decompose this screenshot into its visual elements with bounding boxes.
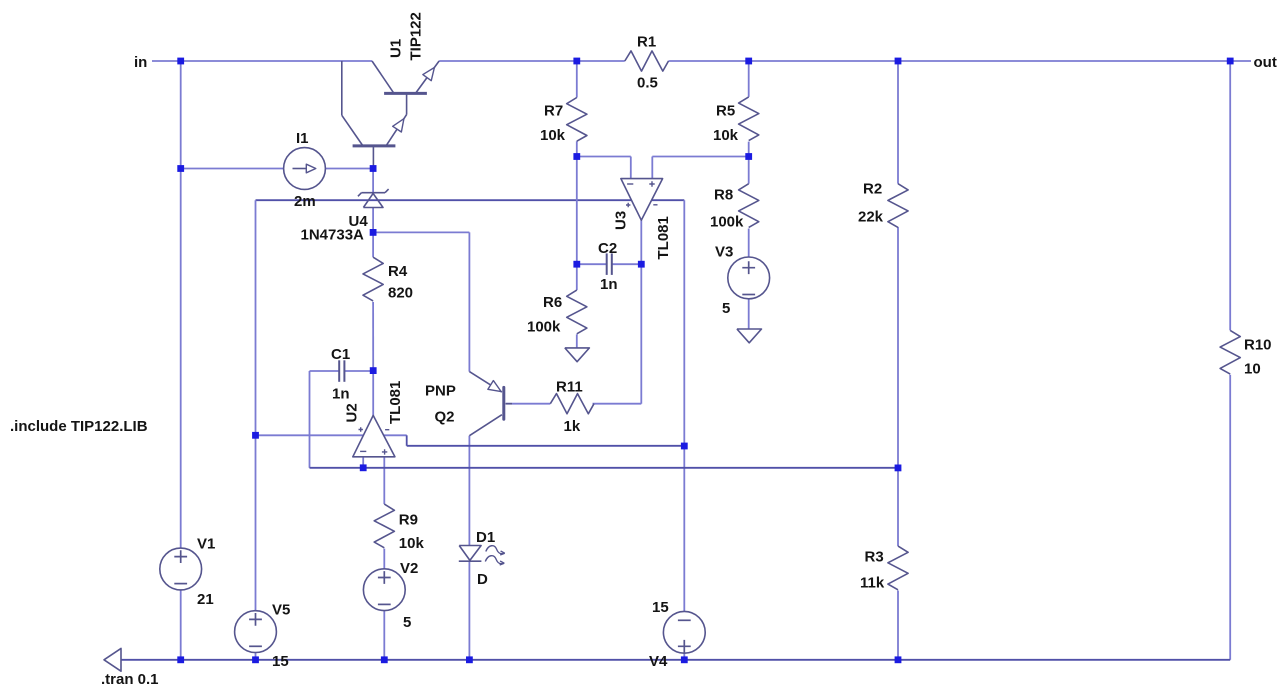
wire	[652, 156, 748, 158]
svg-text:I1: I1	[296, 130, 309, 147]
svg-text:R2: R2	[863, 181, 882, 198]
wire	[640, 220, 642, 404]
wire	[577, 156, 631, 158]
wire	[309, 371, 311, 468]
svg-text:V5: V5	[272, 602, 290, 619]
ground below V3	[737, 329, 762, 343]
wire	[372, 371, 374, 416]
svg-text:22k: 22k	[858, 209, 884, 226]
svg-text:R5: R5	[716, 103, 735, 120]
svg-text:1N4733A: 1N4733A	[301, 227, 365, 244]
current source I1	[284, 148, 326, 190]
voltage source V5	[235, 611, 277, 653]
junction	[1227, 58, 1234, 65]
junction	[745, 153, 752, 160]
svg-text:PNP: PNP	[425, 383, 456, 400]
wire	[372, 169, 374, 193]
wire	[256, 199, 685, 201]
junction	[360, 464, 367, 471]
wire	[651, 157, 653, 179]
wire	[372, 232, 374, 257]
resistor R5	[739, 97, 759, 141]
junction	[895, 58, 902, 65]
wire	[576, 61, 578, 98]
svg-text:D1: D1	[476, 529, 495, 546]
wire	[683, 653, 685, 660]
svg-text:R9: R9	[399, 512, 418, 529]
wire	[897, 468, 899, 546]
svg-text:R7: R7	[544, 103, 563, 120]
svg-text:R10: R10	[1244, 337, 1272, 354]
svg-text:V1: V1	[197, 536, 215, 553]
capacitor C1	[339, 360, 344, 382]
resistor R7	[567, 98, 587, 142]
svg-text:Q2: Q2	[435, 409, 455, 426]
junction	[370, 165, 377, 172]
wire	[468, 436, 470, 546]
junction	[177, 165, 184, 172]
junction	[177, 656, 184, 663]
wire	[897, 591, 899, 660]
diode D1 (with light arrows)	[459, 546, 505, 566]
wire	[748, 61, 750, 97]
transistor Q2 PNP	[469, 372, 512, 436]
capacitor C2	[607, 253, 612, 275]
resistor R3	[888, 546, 908, 590]
op-amp U2 TL081	[353, 415, 395, 456]
svg-text:R6: R6	[543, 294, 562, 311]
voltage source V2	[363, 569, 405, 611]
svg-text:1n: 1n	[332, 386, 350, 403]
svg-text:TL081: TL081	[387, 381, 404, 424]
svg-text:820: 820	[388, 285, 413, 302]
wire	[683, 446, 685, 612]
wire	[1229, 375, 1231, 660]
wire	[576, 141, 578, 156]
svg-text:in: in	[134, 54, 147, 71]
svg-text:10k: 10k	[713, 127, 739, 144]
junction	[252, 656, 259, 663]
junction	[681, 656, 688, 663]
wire	[406, 435, 408, 446]
wire	[577, 263, 607, 265]
wire	[897, 227, 899, 468]
wire	[373, 231, 469, 233]
svg-text:C2: C2	[598, 240, 617, 257]
resistor R9	[374, 504, 394, 548]
wire	[468, 561, 470, 660]
wire	[439, 60, 625, 62]
svg-text:1k: 1k	[564, 418, 581, 435]
wire	[325, 168, 373, 170]
transistor U1 (TIP122 darlington)	[342, 61, 439, 169]
svg-text:V3: V3	[715, 244, 733, 261]
wire	[255, 653, 257, 660]
svg-text:U2: U2	[344, 403, 361, 422]
wire	[152, 60, 372, 62]
voltage source V4	[663, 611, 705, 653]
wire	[748, 299, 750, 329]
svg-text:21: 21	[197, 591, 214, 608]
svg-text:D: D	[477, 571, 488, 588]
svg-text:TIP122: TIP122	[408, 12, 425, 60]
svg-text:C1: C1	[331, 346, 350, 363]
svg-text:R11: R11	[556, 379, 583, 396]
svg-text:10k: 10k	[399, 535, 425, 552]
wire	[593, 403, 642, 405]
wire	[180, 61, 182, 169]
resistor R4	[363, 257, 383, 301]
wire	[630, 157, 632, 179]
svg-text:0.5: 0.5	[637, 75, 658, 92]
svg-text:100k: 100k	[527, 319, 561, 336]
wire	[383, 611, 385, 660]
junction	[895, 656, 902, 663]
junction	[370, 229, 377, 236]
wire	[897, 61, 899, 184]
wire	[372, 302, 374, 371]
wire	[748, 142, 750, 157]
svg-text:5: 5	[403, 614, 411, 631]
wire	[748, 157, 750, 184]
svg-text:10: 10	[1244, 361, 1261, 378]
wire	[468, 232, 470, 371]
junction	[573, 153, 580, 160]
wire	[383, 457, 385, 504]
svg-text:R1: R1	[637, 34, 656, 51]
wire	[372, 208, 374, 233]
junction	[370, 367, 377, 374]
svg-text:R3: R3	[865, 549, 884, 566]
junction	[252, 432, 259, 439]
voltage source V1	[160, 548, 202, 590]
resistor R6	[567, 290, 587, 334]
wire	[407, 445, 685, 447]
svg-text:R4: R4	[388, 263, 408, 280]
svg-text:.include TIP122.LIB: .include TIP122.LIB	[10, 418, 148, 435]
resistor R11	[550, 394, 594, 414]
junction	[895, 465, 902, 472]
zener diode U4 1N4733A	[358, 189, 389, 207]
svg-text:10k: 10k	[540, 127, 566, 144]
resistor R2	[888, 184, 908, 228]
junction	[638, 261, 645, 268]
wire	[180, 590, 182, 660]
resistor R1	[625, 51, 669, 71]
op-amp U3 TL081	[621, 179, 663, 221]
junction	[466, 656, 473, 663]
junction	[681, 443, 688, 450]
wire	[344, 370, 373, 372]
junction	[573, 261, 580, 268]
wire	[180, 169, 182, 549]
svg-text:.tran 0.1: .tran 0.1	[101, 671, 159, 688]
wire	[612, 263, 642, 265]
ground below R6	[565, 348, 590, 362]
voltage source V3	[728, 257, 770, 299]
wire	[748, 229, 750, 258]
svg-text:100k: 100k	[710, 214, 744, 231]
svg-text:15: 15	[272, 653, 289, 670]
wire	[310, 370, 340, 372]
wire	[669, 60, 1252, 62]
svg-text:U3: U3	[613, 211, 630, 230]
svg-text:V2: V2	[400, 560, 418, 577]
svg-text:2m: 2m	[294, 193, 316, 210]
svg-text:5: 5	[722, 300, 730, 317]
wire	[576, 157, 578, 265]
wire	[383, 549, 385, 569]
resistor R8	[739, 184, 759, 228]
junction	[177, 58, 184, 65]
svg-text:1n: 1n	[600, 276, 618, 293]
wire	[255, 200, 257, 435]
wire	[255, 435, 257, 611]
svg-text:TL081: TL081	[655, 216, 672, 259]
wire	[362, 457, 364, 468]
junction	[381, 656, 388, 663]
wire	[181, 168, 284, 170]
wire	[576, 334, 578, 348]
resistor R10	[1220, 330, 1240, 374]
svg-text:11k: 11k	[860, 575, 885, 592]
wire	[1229, 61, 1231, 330]
cursor arrow at rail end	[104, 648, 121, 671]
svg-text:U1: U1	[388, 39, 405, 58]
svg-text:V4: V4	[649, 653, 668, 670]
wire	[256, 434, 407, 436]
wire	[506, 403, 551, 405]
svg-text:out: out	[1254, 54, 1277, 71]
svg-text:R8: R8	[714, 187, 733, 204]
svg-text:15: 15	[652, 599, 669, 616]
wire	[683, 200, 685, 446]
wire	[310, 467, 899, 469]
junction	[745, 58, 752, 65]
wire	[110, 659, 1230, 661]
junction	[573, 58, 580, 65]
wire	[576, 264, 578, 290]
